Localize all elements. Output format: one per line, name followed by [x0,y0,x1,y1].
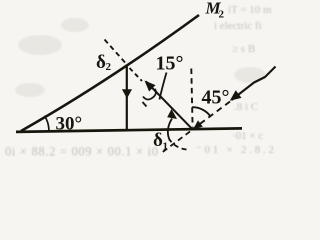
svg-text:≥ s B: ≥ s B [232,43,255,55]
svg-text:15°: 15° [156,53,184,75]
dashed extension of incident ray below mirror M1 [162,132,190,153]
small arc marking 15deg angle between normal and ray CB [143,89,156,100]
ray C to B (solid) [146,82,193,130]
svg-text:·01 × c: ·01 × c [232,130,263,142]
svg-text:2: 2 [106,61,112,73]
arrowhead on ray CB pointing up-left [145,81,156,92]
delta1 curved arrow (dashed lower part) [170,140,187,150]
label delta1 [153,130,168,153]
ray B to ground: vertical reflected ray [126,65,128,131]
svg-text:⁻01 × 2.8.2: ⁻01 × 2.8.2 [196,144,274,156]
dashed extension of ray CB above mirror M2 [105,40,126,64]
label delta2 [96,52,112,73]
label M2 [205,0,225,21]
mirror M2 (inclined line) [21,15,199,131]
svg-text:.8 i C: .8 i C [234,101,258,113]
faint page smudges [15,18,266,97]
faint bleed-through text top right [214,4,272,113]
small arrowhead at C [193,120,203,129]
arrowhead down on vertical ray [122,89,132,98]
leader line from 15deg label [160,73,167,100]
mirror M1 (horizontal baseline) [16,128,242,132]
dashed normal at B below M2 [130,68,143,81]
incident ray (solid part with arrow) [232,67,276,101]
svg-text:i electric fi: i electric fi [214,20,262,32]
dashed normal at C (vertical) [191,69,192,128]
delta1 curved arrow (solid upper part) [168,119,172,141]
incident ray dashed continuation to C [194,102,231,129]
stray tick near angle mark [143,102,147,107]
arrowhead of delta1 arrow [167,109,177,119]
svg-text:2: 2 [219,9,225,21]
svg-text:30°: 30° [56,114,83,135]
svg-text:iT = 10 m: iT = 10 m [228,4,272,16]
svg-text:0i × 88.2 = 009 × 00.1 × i0: 0i × 88.2 = 009 × 00.1 × i0 [5,145,158,159]
30 degree arc at vertex A [45,116,49,131]
faint bleed-through text bottom [5,130,274,159]
arrowhead on incident ray [230,90,242,101]
svg-text:δ: δ [96,52,106,73]
svg-text:δ: δ [153,130,163,151]
45 degree arc at C [192,107,210,116]
svg-text:1: 1 [163,141,169,153]
